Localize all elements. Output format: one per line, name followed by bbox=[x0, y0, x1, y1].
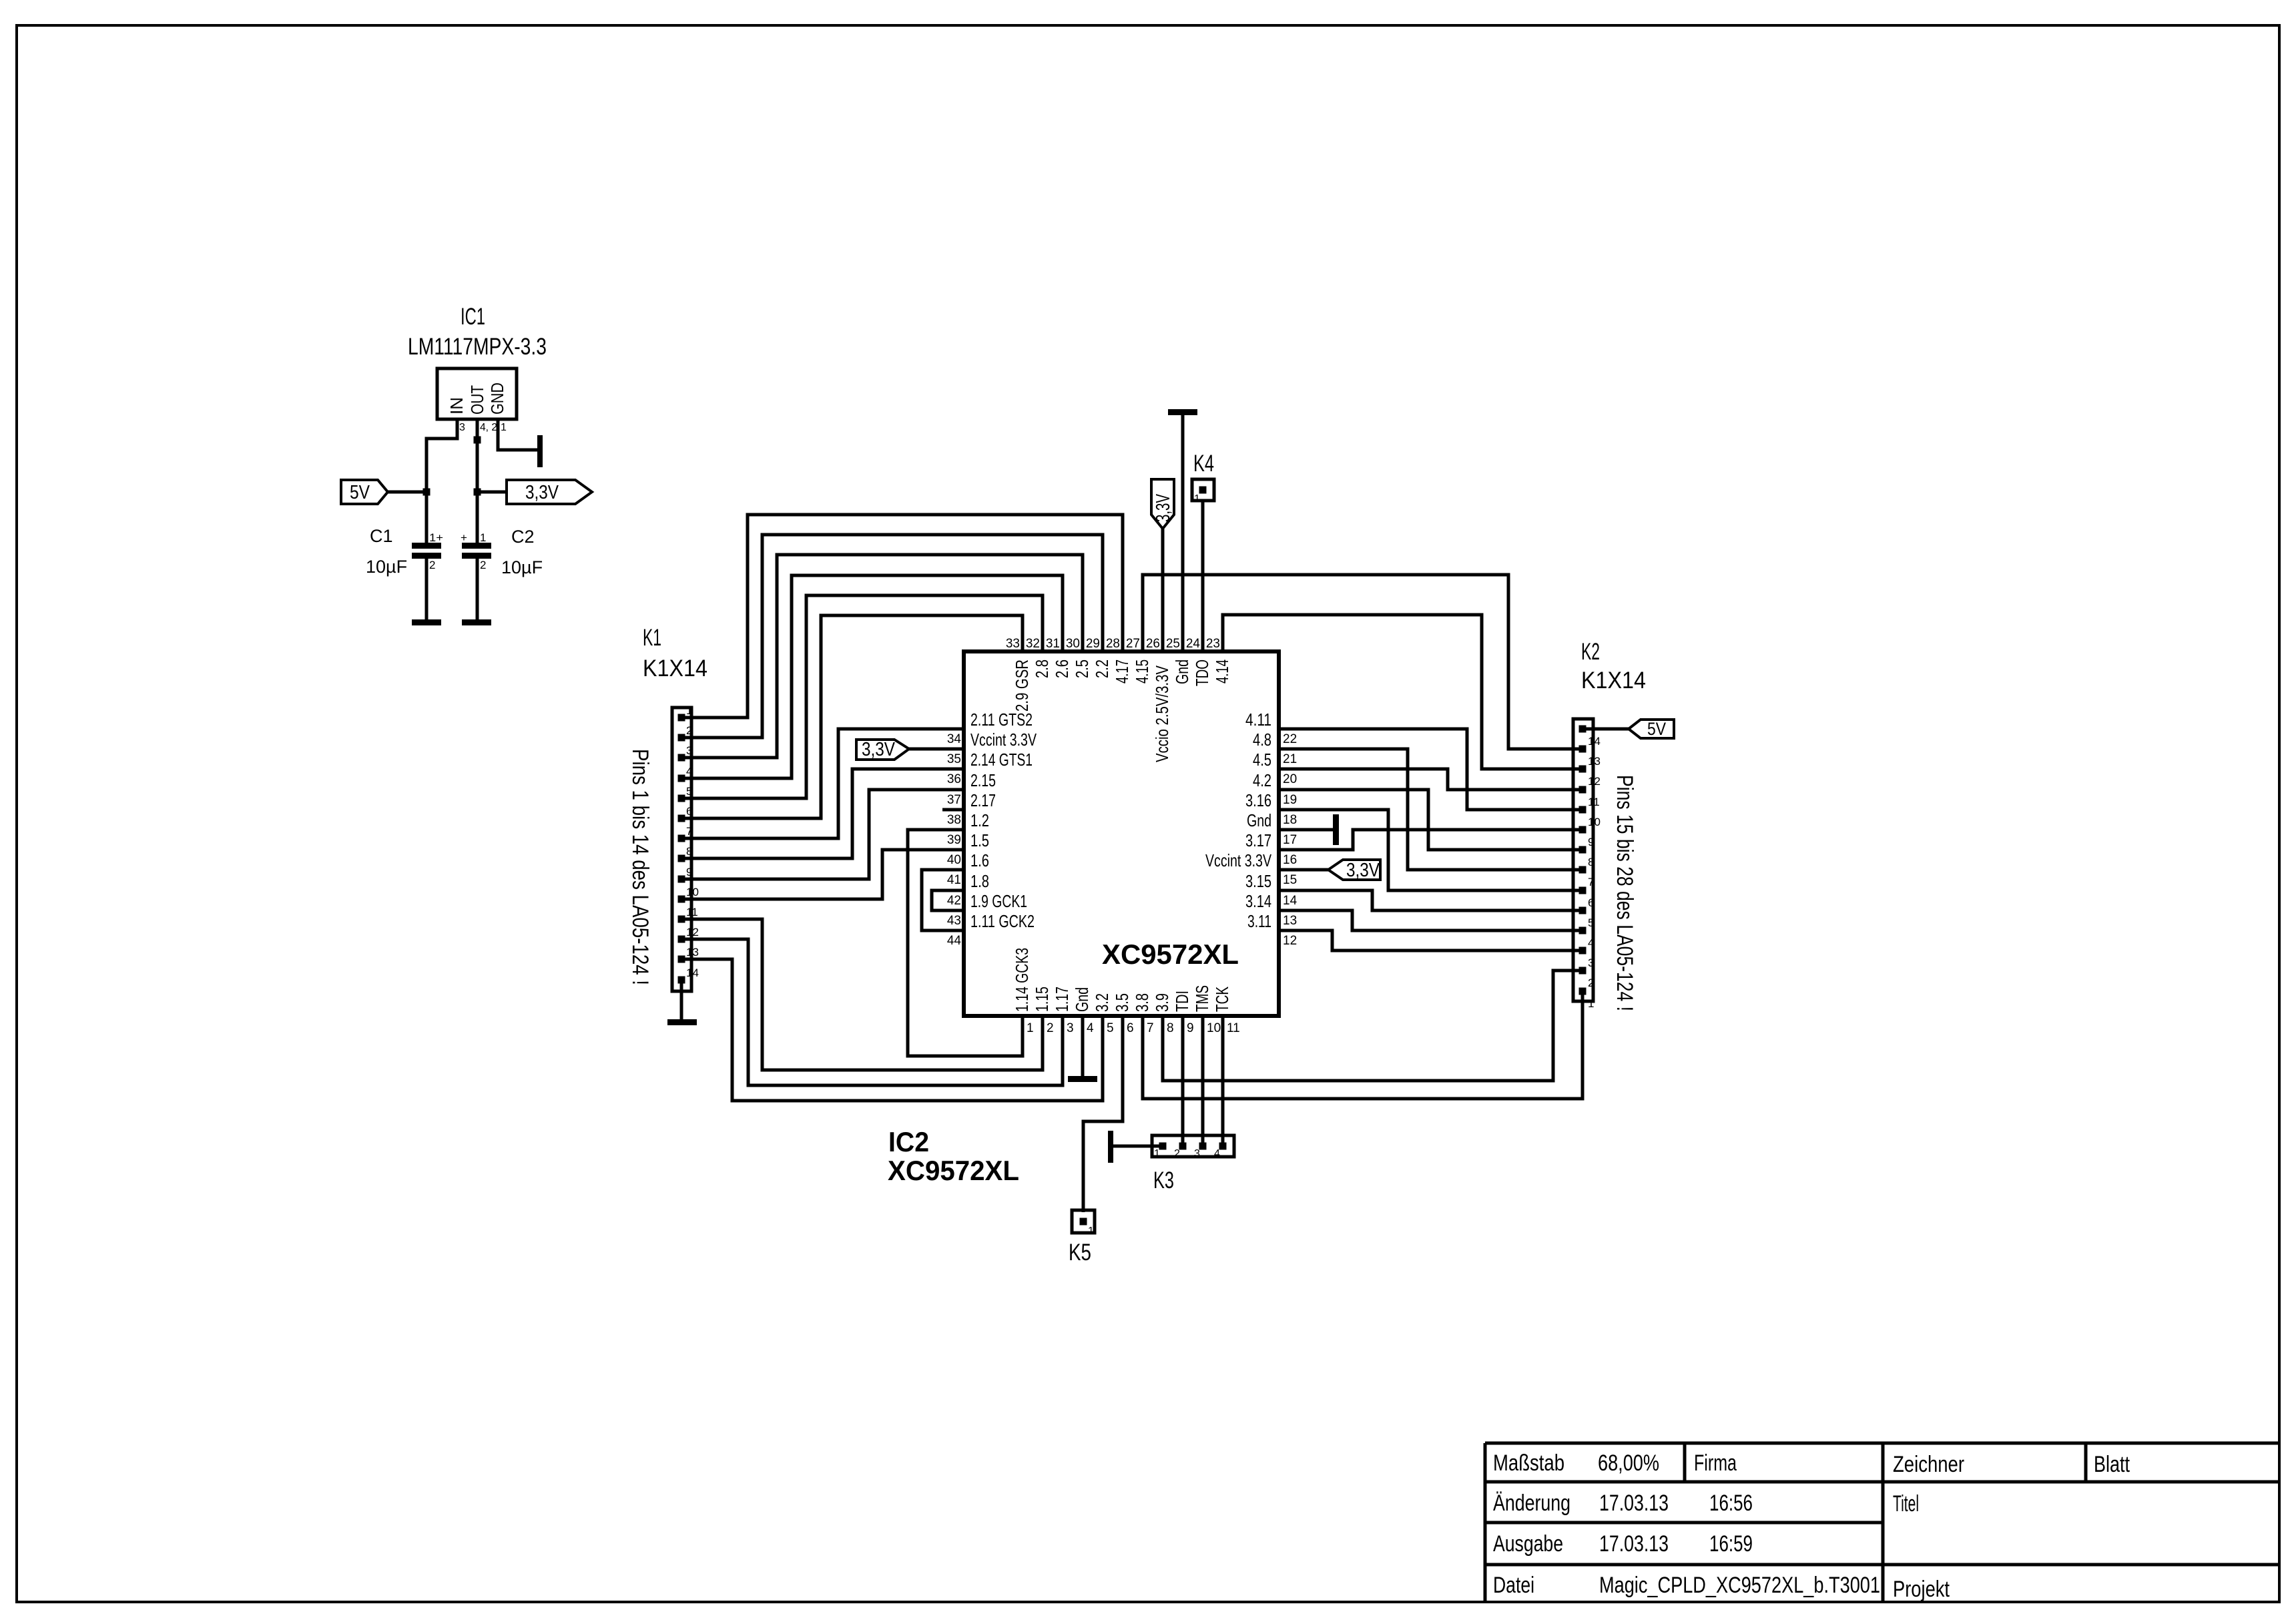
svg-text:34: 34 bbox=[947, 732, 962, 746]
svg-text:3,3V: 3,3V bbox=[1346, 860, 1380, 881]
svg-text:41: 41 bbox=[947, 873, 961, 887]
svg-text:8: 8 bbox=[1588, 856, 1594, 868]
wire IC1 IN pin to 5V node bbox=[426, 419, 457, 492]
wire IC2 pin 42 to pin 43 bbox=[932, 890, 964, 910]
svg-text:44: 44 bbox=[947, 934, 962, 948]
svg-text:28: 28 bbox=[1106, 637, 1120, 651]
power flag 3,3V out bbox=[507, 480, 592, 504]
wire 5V flag to node bbox=[388, 491, 426, 494]
K1 pin 2 dot bbox=[678, 734, 685, 742]
power flag 3,3V at pin 15 bbox=[1328, 860, 1380, 880]
svg-text:K2: K2 bbox=[1581, 639, 1600, 665]
power flag 5V bbox=[341, 480, 388, 504]
wire K1 pin 13 to IC2 pin 5 bbox=[681, 959, 1103, 1101]
wire IC2 pin 18 to K2 pin 6 bbox=[1279, 810, 1583, 890]
svg-text:1.5: 1.5 bbox=[970, 830, 989, 850]
ground bar C2 bbox=[462, 619, 491, 625]
wire IC2 pin 23 to K2 pin 12 bbox=[1223, 615, 1583, 769]
svg-text:2: 2 bbox=[1047, 1021, 1054, 1035]
wire IC2 pin 22 to K2 pin 10 bbox=[1279, 729, 1583, 810]
wire IC2 pin 21 to K2 pin 7 bbox=[1279, 749, 1583, 870]
K1 pin 1 dot bbox=[678, 714, 685, 722]
K2 pin 5 dot bbox=[1579, 907, 1587, 914]
capacitor C2 plate 1 bbox=[462, 543, 491, 549]
svg-text:3.5: 3.5 bbox=[1112, 993, 1132, 1012]
svg-text:1: 1 bbox=[501, 422, 507, 433]
svg-text:2.5: 2.5 bbox=[1072, 659, 1092, 678]
K2 pin 12 dot bbox=[1579, 766, 1587, 773]
K2 pin 3 dot bbox=[1579, 947, 1587, 955]
svg-text:Datei: Datei bbox=[1493, 1573, 1534, 1598]
wire IC2 pin 12 to K2 pin 3 bbox=[1279, 930, 1583, 951]
svg-text:3,3V: 3,3V bbox=[525, 482, 559, 503]
svg-text:3,3V: 3,3V bbox=[862, 739, 896, 760]
svg-text:26: 26 bbox=[1146, 637, 1160, 651]
K2 pin 13 dot bbox=[1579, 746, 1587, 753]
svg-text:42: 42 bbox=[947, 894, 961, 908]
wire K2 pin 14 to 5V flag bbox=[1583, 728, 1629, 731]
svg-text:Blatt: Blatt bbox=[2094, 1452, 2130, 1477]
svg-text:7: 7 bbox=[1147, 1021, 1154, 1035]
power flag 3,3V at pin 26 bbox=[1151, 479, 1174, 529]
svg-text:38: 38 bbox=[947, 813, 961, 827]
svg-text:7: 7 bbox=[686, 825, 692, 838]
svg-text:40: 40 bbox=[947, 853, 961, 867]
connector K4 body bbox=[1192, 479, 1214, 501]
K2 pin 14 dot bbox=[1579, 726, 1587, 733]
svg-text:Vccint 3.3V: Vccint 3.3V bbox=[1205, 850, 1271, 870]
svg-text:6: 6 bbox=[1588, 896, 1594, 909]
svg-text:Gnd: Gnd bbox=[1072, 987, 1092, 1012]
wire OUT node to 3,3V flag bbox=[477, 491, 507, 494]
svg-text:3: 3 bbox=[1067, 1021, 1074, 1035]
wire IC2 pin 9 to K3 pin 2 bbox=[1181, 1016, 1185, 1146]
svg-text:TMS: TMS bbox=[1192, 985, 1212, 1012]
junction node 3,3V/C2/OUT bbox=[474, 489, 481, 496]
K2 pin 10 dot bbox=[1579, 806, 1587, 814]
svg-text:1: 1 bbox=[1588, 997, 1594, 1010]
svg-text:4.14: 4.14 bbox=[1212, 659, 1232, 684]
ground bar K1 bbox=[667, 1019, 697, 1025]
wire K1 pin 3 to IC2 pin 30 bbox=[681, 555, 1083, 758]
svg-text:1+: 1+ bbox=[429, 531, 443, 544]
svg-text:IC1: IC1 bbox=[461, 304, 485, 330]
svg-text:3.11: 3.11 bbox=[1247, 911, 1271, 931]
wire IC1 GND pin bbox=[498, 419, 537, 450]
wire IC2 pin 41 to pin 44 bbox=[922, 870, 964, 930]
svg-text:Zeichner: Zeichner bbox=[1893, 1452, 1964, 1477]
svg-text:10: 10 bbox=[1207, 1021, 1221, 1035]
K1 ground wire bbox=[680, 980, 683, 1021]
wire IC2 pin 19 to K2 pin 8 bbox=[1279, 790, 1583, 850]
wire K1 pin 12 to IC2 pin 3 bbox=[681, 939, 1063, 1085]
svg-text:23: 23 bbox=[1206, 637, 1220, 651]
svg-text:21: 21 bbox=[1283, 752, 1297, 766]
svg-text:16:59: 16:59 bbox=[1709, 1531, 1753, 1557]
K1 pin 12 dot bbox=[678, 936, 685, 943]
svg-text:3.15: 3.15 bbox=[1245, 871, 1271, 891]
wire IC2 pin 8 to K2 pin 2 bbox=[1163, 971, 1583, 1081]
ground bar right of pin 17 bbox=[1333, 814, 1339, 845]
svg-text:35: 35 bbox=[947, 752, 961, 766]
svg-text:Pins 1 bis 14 des LA05-124 !: Pins 1 bis 14 des LA05-124 ! bbox=[627, 749, 653, 985]
svg-text:OUT: OUT bbox=[467, 385, 487, 415]
svg-text:29: 29 bbox=[1086, 637, 1100, 651]
ground bar C1 bbox=[412, 619, 441, 625]
svg-text:14: 14 bbox=[686, 967, 699, 979]
connector K1 body bbox=[672, 708, 691, 991]
wire K1 pin 5 to IC2 pin 32 bbox=[681, 595, 1043, 798]
svg-text:9: 9 bbox=[686, 866, 692, 878]
svg-text:Gnd: Gnd bbox=[1172, 659, 1192, 684]
capacitor C1 plate 2 bbox=[412, 553, 441, 559]
svg-text:17.03.13: 17.03.13 bbox=[1599, 1491, 1669, 1516]
svg-text:1.8: 1.8 bbox=[970, 871, 989, 891]
svg-text:4.11: 4.11 bbox=[1245, 710, 1271, 730]
svg-text:Ausgabe: Ausgabe bbox=[1493, 1531, 1563, 1557]
K2 pin 11 dot bbox=[1579, 786, 1587, 794]
svg-text:4.17: 4.17 bbox=[1112, 659, 1132, 684]
K3 pin 4 dot bbox=[1219, 1143, 1227, 1150]
wire IC1 OUT pin down bbox=[476, 419, 479, 492]
svg-text:IC2: IC2 bbox=[888, 1126, 929, 1157]
wire IC2 pin 27 to K2 pin 13 bbox=[1143, 575, 1583, 749]
ground bar below pin 4 bbox=[1068, 1076, 1097, 1082]
svg-text:2: 2 bbox=[1588, 977, 1594, 989]
svg-text:11: 11 bbox=[686, 906, 698, 918]
svg-text:3: 3 bbox=[459, 422, 465, 433]
K2 pin 6 dot bbox=[1579, 887, 1587, 894]
svg-text:3.17: 3.17 bbox=[1245, 830, 1271, 850]
svg-text:1: 1 bbox=[1088, 1226, 1094, 1237]
wire K1 pin 7 to IC2 pin 34 bbox=[681, 729, 964, 838]
svg-text:Gnd: Gnd bbox=[1247, 810, 1271, 830]
svg-text:2.2: 2.2 bbox=[1092, 659, 1112, 678]
wire node to C2 bbox=[476, 492, 479, 544]
K1 pin 8 dot bbox=[678, 855, 685, 862]
wire IC2 pin 13 to K2 pin 4 bbox=[1279, 910, 1583, 930]
svg-text:19: 19 bbox=[1283, 793, 1297, 807]
wire K1 pin 11 to IC2 pin 2 bbox=[681, 919, 1043, 1070]
svg-text:Magic_CPLD_XC9572XL_b.T3001: Magic_CPLD_XC9572XL_b.T3001 bbox=[1599, 1573, 1880, 1598]
svg-text:TCK: TCK bbox=[1212, 987, 1232, 1012]
svg-text:8: 8 bbox=[1167, 1021, 1174, 1035]
wire IC2 pin 14 to K2 pin 5 bbox=[1279, 890, 1583, 910]
svg-text:39: 39 bbox=[947, 833, 961, 847]
svg-text:2.8: 2.8 bbox=[1032, 659, 1052, 678]
stub IC2 pin 38 bbox=[942, 808, 964, 812]
svg-text:10µF: 10µF bbox=[366, 557, 407, 577]
svg-text:2.17: 2.17 bbox=[970, 790, 996, 810]
svg-text:14: 14 bbox=[1283, 894, 1298, 908]
svg-text:36: 36 bbox=[947, 772, 961, 786]
ground bar K3 bbox=[1108, 1131, 1113, 1163]
svg-text:K1: K1 bbox=[643, 625, 661, 651]
K3 pin 2 dot bbox=[1179, 1143, 1187, 1150]
svg-text:4: 4 bbox=[1214, 1148, 1220, 1159]
svg-text:C2: C2 bbox=[511, 527, 535, 547]
svg-text:3: 3 bbox=[686, 744, 692, 757]
wire IC2 pin 10 to K3 pin 3 bbox=[1201, 1016, 1205, 1146]
svg-text:K4: K4 bbox=[1193, 451, 1214, 477]
svg-text:3: 3 bbox=[1588, 957, 1594, 969]
svg-text:16: 16 bbox=[1283, 853, 1297, 867]
svg-text:3.8: 3.8 bbox=[1132, 993, 1152, 1012]
wire IC2 pin 11 to K3 pin 4 bbox=[1221, 1016, 1225, 1146]
svg-text:1.6: 1.6 bbox=[970, 850, 989, 870]
svg-text:9: 9 bbox=[1588, 836, 1594, 848]
wire IC2 pin 17 Gnd to ground bbox=[1279, 828, 1334, 832]
svg-text:14: 14 bbox=[1588, 735, 1601, 748]
svg-text:43: 43 bbox=[947, 914, 961, 928]
svg-text:37: 37 bbox=[947, 793, 961, 807]
svg-text:12: 12 bbox=[686, 926, 699, 938]
K2 pin 1 dot bbox=[1579, 988, 1587, 995]
wire IC2 pin 26 to 3,3V flag bbox=[1161, 527, 1165, 651]
svg-text:1: 1 bbox=[480, 531, 486, 544]
K2 pin 2 dot bbox=[1579, 967, 1587, 975]
svg-text:1.17: 1.17 bbox=[1052, 987, 1072, 1012]
svg-text:22: 22 bbox=[1283, 732, 1297, 746]
svg-text:1: 1 bbox=[1194, 493, 1200, 505]
svg-text:C1: C1 bbox=[370, 526, 393, 546]
K1 pin 14 dot bbox=[678, 977, 685, 984]
svg-text:Pins 15 bis 28 des LA05-124 !: Pins 15 bis 28 des LA05-124 ! bbox=[1612, 775, 1637, 1011]
svg-text:11: 11 bbox=[1227, 1021, 1240, 1035]
capacitor C2 plate 2 bbox=[462, 553, 491, 559]
connector K5 body bbox=[1072, 1210, 1095, 1233]
K1 pin 6 dot bbox=[678, 815, 685, 822]
svg-text:2.14 GTS1: 2.14 GTS1 bbox=[970, 750, 1033, 770]
ground bar above pin 25 bbox=[1168, 409, 1197, 415]
svg-text:1: 1 bbox=[1154, 1148, 1160, 1159]
wire IC2 pin 15 to 3,3V flag bbox=[1279, 868, 1328, 872]
wire C1 to ground bbox=[425, 559, 428, 621]
svg-text:2: 2 bbox=[429, 559, 435, 571]
svg-text:6: 6 bbox=[1127, 1021, 1134, 1035]
svg-text:2.9 GSR: 2.9 GSR bbox=[1012, 659, 1032, 712]
svg-text:4.5: 4.5 bbox=[1253, 750, 1271, 770]
K1 pin 9 dot bbox=[678, 876, 685, 883]
K1 pin 10 dot bbox=[678, 896, 685, 903]
K4 pin 1 dot bbox=[1199, 487, 1207, 494]
svg-text:TDI: TDI bbox=[1172, 991, 1192, 1012]
K1 pin 7 dot bbox=[678, 835, 685, 842]
svg-text:3.9: 3.9 bbox=[1152, 993, 1172, 1012]
svg-text:68,00%: 68,00% bbox=[1598, 1450, 1659, 1476]
svg-text:1.15: 1.15 bbox=[1032, 987, 1052, 1012]
svg-text:5: 5 bbox=[1588, 916, 1594, 929]
K1 pin 11 dot bbox=[678, 916, 685, 923]
svg-text:1.9 GCK1: 1.9 GCK1 bbox=[970, 891, 1027, 911]
svg-text:XC9572XL: XC9572XL bbox=[888, 1155, 1019, 1186]
svg-text:K5: K5 bbox=[1069, 1240, 1091, 1266]
K1 pin 4 dot bbox=[678, 775, 685, 782]
svg-text:Vccint 3.3V: Vccint 3.3V bbox=[970, 730, 1037, 750]
svg-text:LM1117MPX-3.3: LM1117MPX-3.3 bbox=[408, 334, 547, 360]
wire K1 pin 6 to IC2 pin 33 bbox=[681, 615, 1023, 818]
K1 pin 3 dot bbox=[678, 754, 685, 762]
wire IC2 pin 20 to K2 pin 11 bbox=[1279, 769, 1583, 790]
svg-text:7: 7 bbox=[1588, 876, 1594, 888]
svg-text:2.15: 2.15 bbox=[970, 770, 996, 790]
svg-text:10: 10 bbox=[1588, 816, 1601, 828]
wire K1 pin 10 to IC2 pin 40 bbox=[681, 850, 964, 899]
svg-text:IN: IN bbox=[447, 397, 467, 415]
svg-text:XC9572XL: XC9572XL bbox=[1102, 938, 1239, 970]
svg-text:12: 12 bbox=[1283, 934, 1297, 948]
svg-text:1.14 GCK3: 1.14 GCK3 bbox=[1012, 948, 1032, 1012]
svg-text:20: 20 bbox=[1283, 772, 1297, 786]
svg-text:17: 17 bbox=[1283, 833, 1297, 847]
svg-text:25: 25 bbox=[1166, 637, 1180, 651]
svg-text:2: 2 bbox=[480, 559, 486, 571]
svg-text:1: 1 bbox=[686, 704, 692, 717]
svg-text:+: + bbox=[461, 531, 467, 544]
svg-text:4: 4 bbox=[686, 765, 692, 778]
svg-text:4.8: 4.8 bbox=[1253, 730, 1271, 750]
wire C2 to ground bbox=[476, 559, 479, 621]
svg-text:Firma: Firma bbox=[1694, 1450, 1737, 1476]
svg-text:K1X14: K1X14 bbox=[643, 655, 707, 682]
svg-text:27: 27 bbox=[1126, 637, 1140, 651]
wire K1 pin 8 to IC2 pin 36 bbox=[681, 769, 964, 858]
svg-text:K1X14: K1X14 bbox=[1581, 667, 1646, 694]
power flag 3,3V at pin 35 bbox=[856, 740, 909, 760]
svg-text:Vccio 2.5V/3.3V: Vccio 2.5V/3.3V bbox=[1152, 665, 1172, 762]
svg-text:3,3V: 3,3V bbox=[1153, 494, 1174, 522]
svg-text:15: 15 bbox=[1283, 873, 1297, 887]
svg-text:5: 5 bbox=[1107, 1021, 1114, 1035]
svg-text:2: 2 bbox=[1174, 1148, 1180, 1159]
svg-text:18: 18 bbox=[1283, 813, 1297, 827]
junction node 5V/C1/IN bbox=[423, 489, 431, 496]
svg-text:Projekt: Projekt bbox=[1893, 1577, 1950, 1602]
svg-text:5V: 5V bbox=[1647, 719, 1666, 739]
K1 pin 13 dot bbox=[678, 956, 685, 963]
svg-text:1.11 GCK2: 1.11 GCK2 bbox=[970, 911, 1035, 931]
junction dot OUT pins 4,2 bbox=[474, 437, 481, 444]
svg-text:5V: 5V bbox=[350, 482, 370, 503]
K3 pin 1 dot bbox=[1159, 1143, 1167, 1150]
svg-text:32: 32 bbox=[1026, 637, 1040, 651]
svg-text:2.6: 2.6 bbox=[1052, 659, 1072, 678]
svg-text:33: 33 bbox=[1006, 637, 1020, 651]
svg-text:8: 8 bbox=[686, 845, 692, 858]
svg-text:12: 12 bbox=[1588, 775, 1601, 788]
svg-text:3: 3 bbox=[1194, 1148, 1200, 1159]
svg-text:4.2: 4.2 bbox=[1253, 770, 1271, 790]
svg-text:11: 11 bbox=[1588, 796, 1600, 808]
svg-text:4: 4 bbox=[1087, 1021, 1094, 1035]
wire node to C1 bbox=[425, 492, 428, 544]
K2 pin 9 dot bbox=[1579, 826, 1587, 834]
svg-text:TDO: TDO bbox=[1192, 659, 1212, 686]
wire IC2 pin 24 to K4 bbox=[1201, 501, 1205, 651]
svg-text:Titel: Titel bbox=[1893, 1491, 1919, 1517]
svg-text:13: 13 bbox=[1283, 914, 1297, 928]
wire IC2 pin 4 to ground bbox=[1081, 1016, 1085, 1077]
svg-text:10: 10 bbox=[686, 886, 699, 898]
svg-text:31: 31 bbox=[1046, 637, 1060, 651]
svg-text:Änderung: Änderung bbox=[1493, 1491, 1570, 1516]
wire K1 pin 4 to IC2 pin 31 bbox=[681, 575, 1063, 778]
wire IC2 pin 6 to K5 bbox=[1083, 1016, 1123, 1212]
svg-text:3.2: 3.2 bbox=[1092, 993, 1112, 1012]
svg-text:9: 9 bbox=[1187, 1021, 1194, 1035]
capacitor C1 plate 1 bbox=[412, 543, 441, 549]
K3 ground wire bbox=[1113, 1145, 1163, 1148]
svg-text:3.16: 3.16 bbox=[1245, 790, 1271, 810]
wire K1 pin 1 to IC2 pin 28 bbox=[681, 515, 1123, 718]
svg-text:3.14: 3.14 bbox=[1245, 891, 1271, 911]
svg-text:4: 4 bbox=[1588, 936, 1594, 949]
svg-text:24: 24 bbox=[1186, 637, 1201, 651]
wire IC2 pin 39 to pin 1 bbox=[908, 830, 1023, 1056]
wire K1 pin 2 to IC2 pin 29 bbox=[681, 535, 1103, 738]
K3 pin 3 dot bbox=[1199, 1143, 1207, 1150]
svg-text:13: 13 bbox=[686, 946, 699, 959]
wire IC2 pin 16 to K2 pin 9 bbox=[1279, 830, 1583, 850]
connector K2 body bbox=[1573, 719, 1593, 1001]
svg-text:4, 2: 4, 2 bbox=[480, 422, 497, 433]
wire K1 pin 9 to IC2 pin 37 bbox=[681, 790, 964, 879]
svg-text:10µF: 10µF bbox=[501, 557, 543, 577]
svg-text:1.2: 1.2 bbox=[970, 810, 989, 830]
svg-text:K3: K3 bbox=[1153, 1167, 1174, 1193]
svg-text:2: 2 bbox=[686, 724, 692, 737]
wire 3,3V flag to IC2 pin 35 bbox=[909, 748, 964, 751]
K1 pin 5 dot bbox=[678, 795, 685, 802]
power flag 5V at K2 bbox=[1629, 720, 1674, 738]
title block grid bbox=[1485, 1442, 2279, 1445]
svg-text:16:56: 16:56 bbox=[1709, 1491, 1753, 1516]
svg-text:4.15: 4.15 bbox=[1132, 659, 1152, 684]
CPLD IC2 body bbox=[964, 651, 1279, 1016]
ground bar IC1 bbox=[537, 435, 543, 467]
svg-text:2.11 GTS2: 2.11 GTS2 bbox=[970, 710, 1033, 730]
wire IC2 pin 25 to ground bbox=[1181, 415, 1185, 651]
K2 pin 8 dot bbox=[1579, 846, 1587, 854]
svg-text:Maßstab: Maßstab bbox=[1493, 1450, 1564, 1476]
svg-text:30: 30 bbox=[1066, 637, 1080, 651]
connector K3 body bbox=[1152, 1135, 1234, 1157]
svg-text:6: 6 bbox=[686, 805, 692, 818]
voltage regulator IC1 body bbox=[437, 368, 517, 419]
svg-text:13: 13 bbox=[1588, 755, 1601, 768]
K5 pin 1 dot bbox=[1080, 1218, 1087, 1226]
wire IC2 pin 7 to K2 pin 1 bbox=[1143, 991, 1583, 1099]
svg-text:17.03.13: 17.03.13 bbox=[1599, 1531, 1669, 1557]
K2 pin 7 dot bbox=[1579, 866, 1587, 874]
svg-text:GND: GND bbox=[487, 382, 507, 415]
K2 pin 4 dot bbox=[1579, 927, 1587, 934]
svg-text:5: 5 bbox=[686, 785, 692, 798]
svg-text:1: 1 bbox=[1027, 1021, 1034, 1035]
